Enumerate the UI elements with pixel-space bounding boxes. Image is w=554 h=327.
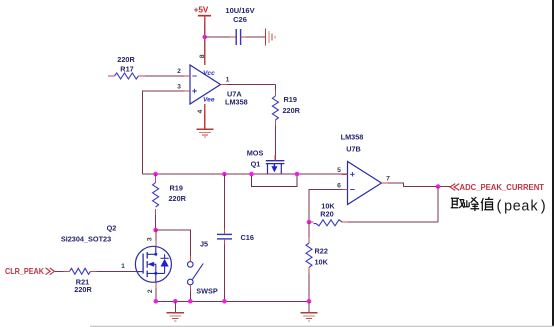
junction node Q1 left xyxy=(249,172,254,177)
svg-text:J5: J5 xyxy=(200,240,208,249)
wire feedback vertical xyxy=(437,187,439,223)
svg-text:Q2: Q2 xyxy=(107,224,117,233)
pin stubs (red component pins) xyxy=(64,16,389,291)
svg-text:3: 3 xyxy=(177,84,181,91)
capacitor C26 xyxy=(225,6,254,45)
svg-text:CLR_PEAK: CLR_PEAK xyxy=(5,267,44,276)
svg-text:U7B: U7B xyxy=(346,145,361,154)
svg-text:5: 5 xyxy=(337,167,341,174)
power +5V xyxy=(194,6,211,16)
svg-text:R19: R19 xyxy=(284,95,297,104)
ground (below U7A) xyxy=(196,129,213,137)
junction node R20/R22/pin6 xyxy=(307,220,312,225)
border right xyxy=(552,0,554,327)
svg-text:1: 1 xyxy=(226,77,230,84)
bottom bus wire xyxy=(156,300,309,302)
svg-text:1: 1 xyxy=(121,263,125,270)
svg-text:3: 3 xyxy=(146,237,153,241)
junction node ground tap left xyxy=(173,299,178,304)
svg-text:Q1: Q1 xyxy=(251,160,261,169)
svg-text:10K: 10K xyxy=(315,258,329,267)
switch J5 xyxy=(188,240,218,296)
wire Q1 bottom loop xyxy=(252,174,298,187)
op-amp U7A xyxy=(177,54,248,113)
svg-text:LM358: LM358 xyxy=(225,98,248,107)
capacitor C16 xyxy=(217,174,254,301)
svg-text:2: 2 xyxy=(147,289,154,293)
svg-text:Vee: Vee xyxy=(203,97,215,104)
junction node Q1 right xyxy=(295,172,300,177)
wire pin 3 feedback xyxy=(143,91,191,174)
svg-text:+5V: +5V xyxy=(194,6,209,15)
svg-text:220R: 220R xyxy=(117,55,135,64)
resistor R20 xyxy=(309,202,438,226)
wire C26 to ground xyxy=(241,36,265,38)
border bottom xyxy=(90,326,554,327)
svg-text:R19: R19 xyxy=(170,184,183,193)
port CLR_PEAK xyxy=(5,267,54,276)
ground (right of C26, sideways) xyxy=(266,29,275,46)
wire J5 to bus xyxy=(189,285,191,302)
junction node R19 bottom / J5 branch xyxy=(153,228,158,233)
svg-text:LM358: LM358 xyxy=(341,133,364,142)
svg-text:R20: R20 xyxy=(320,210,333,219)
wire to J5 xyxy=(156,230,191,262)
resistor R19 (right) xyxy=(272,85,300,161)
svg-text:8: 8 xyxy=(199,54,206,58)
junction node C16 top xyxy=(222,172,227,177)
annotation 取峰值 (hand-drawn glyphs) xyxy=(451,197,494,211)
wire Q2 source to bus xyxy=(155,282,157,301)
svg-text:R17: R17 xyxy=(120,65,133,74)
op-amp U7B xyxy=(337,133,390,205)
svg-text:220R: 220R xyxy=(169,194,187,203)
junction node output xyxy=(436,184,441,189)
ground (bottom left) xyxy=(167,301,184,321)
svg-text:C16: C16 xyxy=(241,233,254,242)
wire U7B pin6 xyxy=(309,190,348,223)
svg-text:SWSP: SWSP xyxy=(196,287,218,296)
svg-text:2: 2 xyxy=(177,68,181,75)
svg-text:Vcc: Vcc xyxy=(203,70,215,77)
svg-text:220R: 220R xyxy=(74,285,92,294)
resistor R19 (left) xyxy=(153,174,187,230)
svg-text:4: 4 xyxy=(197,109,204,113)
ground (bottom right) xyxy=(300,301,317,321)
wire U7A output pin 1 xyxy=(221,84,276,86)
svg-text:SI2304_SOT23: SI2304_SOT23 xyxy=(61,235,111,244)
svg-text:C26: C26 xyxy=(233,15,247,24)
wire pin 4 to ground xyxy=(204,104,206,129)
wire main net (U7A pin3 / Q1 / C16 / U7B pin5) xyxy=(143,173,348,175)
svg-text:(peak): (peak) xyxy=(495,200,547,216)
wire U7B output pin7 xyxy=(382,183,451,187)
svg-text:220R: 220R xyxy=(283,106,301,115)
svg-text:10U/16V: 10U/16V xyxy=(225,6,254,15)
svg-text:6: 6 xyxy=(337,183,341,190)
transistor Q2 SI2304 xyxy=(61,224,172,294)
junction node R19 left top xyxy=(153,172,158,177)
wire +5V stem to pin 8 of U7A xyxy=(204,16,206,65)
junction node J5 bottom xyxy=(188,299,193,304)
svg-text:R22: R22 xyxy=(315,247,328,256)
wire junction to C26 xyxy=(205,36,236,38)
transistor Q1 (MOS) xyxy=(247,149,285,175)
wire Q2 drain to R19 junction xyxy=(155,230,157,246)
resistor R17 xyxy=(108,55,190,79)
junction node C16 bottom xyxy=(222,299,227,304)
resistor R22 xyxy=(306,222,329,301)
port ADC_PEAK_CURRENT xyxy=(450,183,544,192)
junction node +5V/C26 xyxy=(202,35,207,40)
resistor R21 xyxy=(55,268,137,294)
svg-text:MOS: MOS xyxy=(247,149,264,158)
junction node Q2 source corner xyxy=(154,299,159,304)
svg-text:7: 7 xyxy=(386,176,390,183)
svg-text:ADC_PEAK_CURRENT: ADC_PEAK_CURRENT xyxy=(460,183,545,192)
junction node R22 bottom xyxy=(307,299,312,304)
